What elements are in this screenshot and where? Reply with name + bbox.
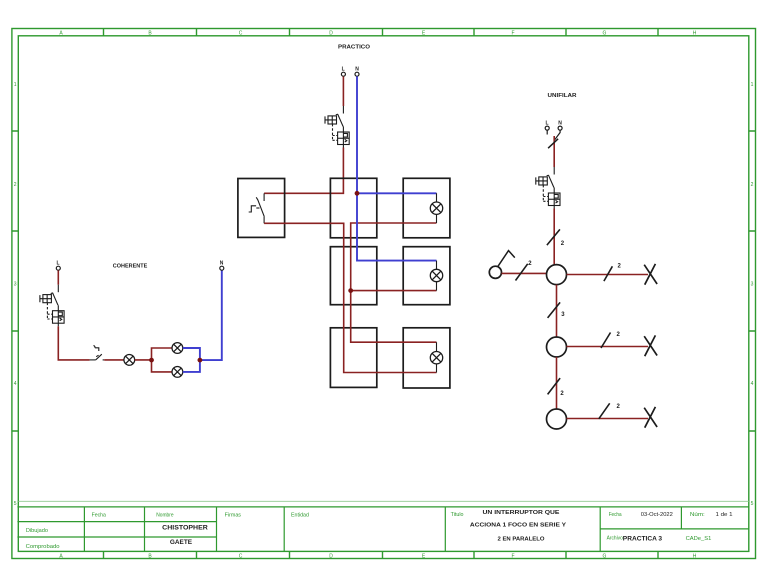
svg-text:03-Oct-2022: 03-Oct-2022 bbox=[641, 512, 673, 518]
lamp X3 (unifilar) bbox=[644, 407, 657, 428]
lamp box 2 bbox=[403, 247, 450, 305]
svg-text:G: G bbox=[603, 553, 607, 559]
wire upper branch to lamp E2 bbox=[152, 348, 173, 360]
terminal N (practico) bbox=[355, 67, 359, 77]
svg-text:GAETE: GAETE bbox=[170, 539, 192, 546]
svg-text:CHISTOPHER: CHISTOPHER bbox=[162, 525, 208, 532]
svg-text:H: H bbox=[693, 553, 697, 559]
slash 2 conductors (row 1) bbox=[604, 264, 622, 282]
junction node 2 bbox=[198, 358, 203, 363]
wire neutral to terminal N bbox=[200, 270, 222, 360]
derivation box 3 bbox=[547, 409, 567, 429]
switch box bbox=[238, 179, 285, 238]
svg-text:2: 2 bbox=[751, 182, 754, 188]
conductor slash (feed) bbox=[548, 139, 558, 148]
svg-text:UNIFILAR: UNIFILAR bbox=[548, 93, 578, 99]
svg-text:Nombre: Nombre bbox=[156, 513, 173, 519]
terminal L (coherente) bbox=[56, 261, 60, 271]
main feed wire bbox=[553, 136, 555, 167]
svg-text:4: 4 bbox=[14, 381, 17, 387]
derivation box 2 bbox=[547, 337, 567, 357]
svg-text:PRACTICO: PRACTICO bbox=[338, 45, 371, 51]
svg-text:N: N bbox=[558, 120, 562, 126]
svg-text:Fecha: Fecha bbox=[609, 512, 622, 518]
svg-text:COHERENTE: COHERENTE bbox=[113, 264, 148, 270]
wire breaker to box 1 bbox=[553, 209, 555, 266]
lamp H1 (practico) bbox=[430, 202, 442, 214]
svg-text:UN INTERRUPTOR QUE: UN INTERRUPTOR QUE bbox=[483, 510, 560, 516]
svg-text:F: F bbox=[511, 553, 514, 559]
svg-text:Archivo: Archivo bbox=[607, 536, 623, 542]
circuit breaker (unifilar) bbox=[536, 167, 560, 209]
junction (lamp2 tap) bbox=[348, 288, 353, 293]
svg-text:5: 5 bbox=[751, 501, 754, 507]
lamp X1 (unifilar) bbox=[644, 264, 657, 285]
terminal N (coherente) bbox=[220, 261, 224, 271]
lamp box 3 bbox=[403, 328, 450, 388]
svg-text:Comprobado: Comprobado bbox=[26, 544, 60, 550]
terminal L (unifilar) bbox=[545, 120, 549, 130]
switch (unifilar) bbox=[489, 251, 515, 279]
lamp box 1 bbox=[403, 178, 450, 238]
wire switch to lamp E1 bbox=[104, 359, 124, 361]
svg-text:5: 5 bbox=[14, 501, 17, 507]
svg-text:1: 1 bbox=[14, 82, 17, 88]
wire box1 to lamp X1 bbox=[567, 274, 649, 276]
lamp H3 (practico) bbox=[430, 352, 442, 364]
wire box3 to lamp X3 bbox=[567, 418, 649, 420]
svg-text:C: C bbox=[239, 553, 243, 559]
wire lamp E3 to junction 2 (neutral) bbox=[183, 360, 200, 372]
neutral wire N down bbox=[357, 76, 437, 260]
lamp E1 (series) bbox=[124, 355, 135, 366]
svg-text:4: 4 bbox=[751, 381, 754, 387]
terminal L (practico) bbox=[341, 67, 345, 77]
svg-text:Núm:: Núm: bbox=[690, 512, 705, 518]
slash 2 conductors (switch wire) bbox=[516, 261, 533, 281]
svg-text:G: G bbox=[603, 30, 607, 36]
svg-text:D: D bbox=[329, 553, 333, 559]
svg-text:1 de 1: 1 de 1 bbox=[716, 512, 733, 518]
lamp H2 (practico) bbox=[430, 269, 442, 281]
lamp H2 stubs bbox=[436, 261, 438, 291]
junction node 1 bbox=[149, 358, 154, 363]
slash 2 conductors bbox=[547, 229, 565, 247]
junction box 1 bbox=[330, 178, 376, 238]
circuit breaker (coherente) bbox=[40, 285, 64, 327]
wire lamp E2 to junction 2 (neutral) bbox=[183, 348, 200, 360]
svg-text:CADe_S1: CADe_S1 bbox=[686, 536, 712, 542]
junction box 2 bbox=[330, 247, 376, 305]
wire switch to box 1 bbox=[502, 272, 547, 274]
svg-text:D: D bbox=[329, 30, 333, 36]
wire neutral tap to lamp1 bbox=[357, 192, 437, 194]
wire lower branch to lamp E3 bbox=[152, 360, 173, 372]
svg-text:1: 1 bbox=[751, 82, 754, 88]
svg-text:L: L bbox=[56, 261, 59, 267]
svg-text:Titulo: Titulo bbox=[451, 512, 464, 518]
svg-text:PRACTICA 3: PRACTICA 3 bbox=[623, 536, 663, 542]
wire box2 to lamp X2 bbox=[567, 346, 649, 348]
svg-text:Entidad: Entidad bbox=[291, 513, 309, 519]
svg-text:Fecha: Fecha bbox=[92, 513, 107, 519]
wire tap to lamp2 bottom bbox=[351, 290, 437, 292]
svg-text:Dibujado: Dibujado bbox=[26, 528, 48, 534]
wire breaker to switch S1 bbox=[58, 326, 89, 360]
circuit breaker (practico) bbox=[325, 106, 349, 148]
svg-text:2: 2 bbox=[14, 182, 17, 188]
N drop to main line bbox=[554, 130, 560, 140]
svg-text:N: N bbox=[220, 261, 224, 267]
wire lamp E1 to junction bbox=[135, 359, 152, 361]
svg-text:ACCIONA 1 FOCO EN SERIE Y: ACCIONA 1 FOCO EN SERIE Y bbox=[470, 523, 566, 529]
lamp H1 stubs bbox=[436, 193, 438, 223]
wire box1 to box2 bbox=[556, 285, 558, 337]
L stub bbox=[546, 130, 548, 134]
lamp E2 (parallel upper) bbox=[172, 343, 183, 354]
wire lamp1 return down the column bbox=[351, 223, 437, 342]
slash 2 conductors (row 2) bbox=[601, 332, 621, 348]
lamp H3 stubs bbox=[436, 342, 438, 372]
junction (neutral tap) bbox=[355, 191, 360, 196]
wire switch return to junction box column bbox=[264, 223, 436, 372]
svg-text:3: 3 bbox=[14, 282, 17, 288]
svg-text:L: L bbox=[545, 120, 548, 126]
slash 2 conductors (row 3) bbox=[599, 403, 621, 419]
slash 3 conductors bbox=[548, 302, 566, 318]
svg-text:2 EN PARALELO: 2 EN PARALELO bbox=[498, 537, 545, 543]
derivation box 1 bbox=[547, 265, 567, 285]
wire breaker to junction box 1 / switch feed bbox=[264, 148, 343, 194]
switch S2 (practico) bbox=[249, 193, 265, 223]
svg-text:3: 3 bbox=[751, 282, 754, 288]
wire L to breaker bbox=[57, 270, 59, 284]
wire L to breaker bbox=[342, 76, 344, 106]
lamp X2 (unifilar) bbox=[644, 335, 657, 356]
switch S1 (coherente) bbox=[90, 345, 105, 360]
svg-text:Firmas: Firmas bbox=[225, 513, 242, 519]
svg-text:F: F bbox=[511, 30, 514, 36]
wire box2 to box3 bbox=[556, 357, 558, 409]
terminal N (unifilar) bbox=[558, 120, 562, 130]
svg-text:C: C bbox=[239, 30, 243, 36]
slash 2 conductors (column) bbox=[548, 378, 565, 397]
junction box 3 bbox=[330, 328, 376, 388]
lamp E3 (parallel lower) bbox=[172, 367, 183, 378]
title block bbox=[18, 500, 749, 502]
svg-text:H: H bbox=[693, 30, 697, 36]
